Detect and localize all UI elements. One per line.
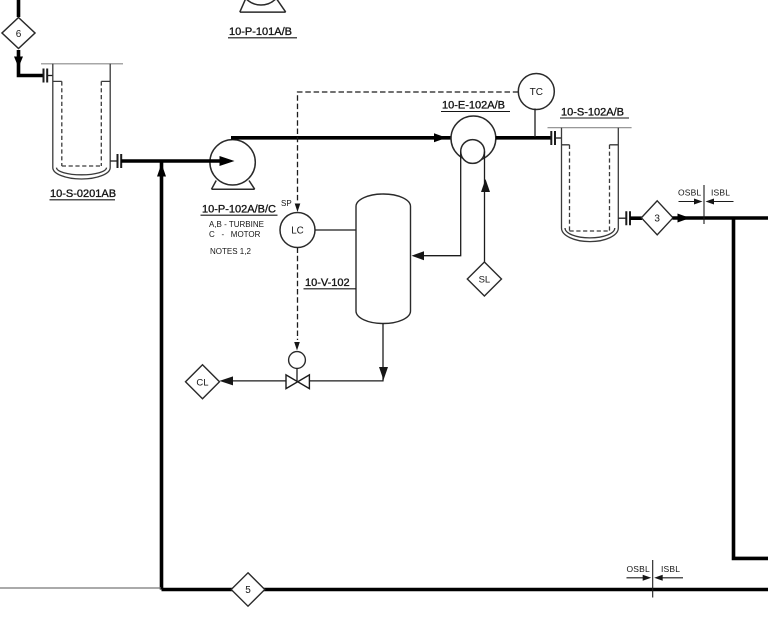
svg-text:10-S-102A/B: 10-S-102A/B xyxy=(561,107,624,119)
svg-text:NOTES 1,2: NOTES 1,2 xyxy=(210,247,251,256)
node CL diamond xyxy=(186,365,220,399)
label 10-P-102A/B/C with notes xyxy=(201,204,278,257)
flange break at 10-S-0201AB inlet nozzle xyxy=(44,69,48,83)
svg-text:OSBL: OSBL xyxy=(678,188,702,198)
signal: dashed line TC to LC setpoint corner xyxy=(298,92,519,203)
svg-text:10-E-102A/B: 10-E-102A/B xyxy=(442,100,505,112)
node 3 diamond xyxy=(641,201,673,235)
wire: bottom header (corner from riser, to right edge) xyxy=(162,588,768,592)
svg-text:TC: TC xyxy=(530,87,543,98)
svg-text:5: 5 xyxy=(245,585,251,596)
flange break at 10-S-0201AB outlet xyxy=(118,154,122,168)
wire: exchanger tube-side outlet to 10-V-102 (left arrow) xyxy=(412,152,461,261)
svg-text:6: 6 xyxy=(16,29,22,40)
svg-text:OSBL: OSBL xyxy=(627,564,651,574)
flange break at 10-S-102A/B outlet xyxy=(626,211,630,225)
control valve with diaphragm actuator xyxy=(286,352,309,389)
svg-text:LC: LC xyxy=(291,226,304,237)
svg-text:CL: CL xyxy=(196,377,208,388)
svg-text:SP: SP xyxy=(281,199,292,208)
svg-text:10-V-102: 10-V-102 xyxy=(305,277,350,289)
node 5 diamond xyxy=(231,573,265,606)
flange break at 10-S-102A/B inlet xyxy=(551,131,555,145)
wire: right riser down and out right edge xyxy=(732,218,768,558)
svg-text:10-P-101A/B: 10-P-101A/B xyxy=(229,26,292,38)
pump 10-P-102A/B/C xyxy=(210,140,255,190)
boundary marker OSBL/ISBL (bottom) xyxy=(627,560,684,598)
wire: valve outlet to CL (left arrow) xyxy=(220,376,287,385)
vessel 10-V-102 xyxy=(356,194,411,324)
instrument TC xyxy=(518,74,554,110)
label 10-S-102A/B xyxy=(560,107,629,119)
wire: thin continuation of bottom header to left edge xyxy=(0,587,161,589)
wire: exchanger outlet pipe to 10-S-102A/B xyxy=(496,136,551,140)
instrument LC xyxy=(280,213,315,248)
wire: SL line up into exchanger (up arrow) xyxy=(481,152,490,263)
wire: 10-S-102A/B outlet to diamond 3 xyxy=(618,217,626,219)
heat exchanger 10-E-102A/B xyxy=(451,116,496,163)
svg-text:10-P-102A/B/C: 10-P-102A/B/C xyxy=(202,204,276,216)
node SL diamond xyxy=(467,262,501,296)
wire: LC level tap to 10-V-102 xyxy=(315,229,356,231)
wire: valve line right segment xyxy=(310,380,384,382)
wire: 10-S-0201AB outlet to pump 10-P-102 suction (right arrow into pump) xyxy=(110,156,234,166)
vessel 10-S-0201AB xyxy=(41,64,123,179)
signal: dashed LC to control valve actuator (down arrow) xyxy=(294,248,300,351)
wire: 10-V-102 bottom outlet down (down arrow) xyxy=(379,324,388,381)
wire: diamond 3 to right edge (arrow, T junction) xyxy=(673,214,768,223)
node 6 (off-page connector diamond) xyxy=(2,18,35,49)
label 10-P-101A/B xyxy=(228,26,297,38)
label 10-S-0201AB xyxy=(50,188,117,200)
wire: riser from bottom header up to suction line (up arrow) xyxy=(157,161,166,590)
boundary marker OSBL/ISBL (top right) xyxy=(678,185,734,224)
svg-text:ISBL: ISBL xyxy=(711,188,730,198)
svg-text:10-S-0201AB: 10-S-0201AB xyxy=(50,188,116,200)
wire: pump discharge to exchanger (right arrow) xyxy=(231,133,451,142)
label 10-E-102A/B xyxy=(441,100,510,112)
vessel 10-S-102A/B xyxy=(548,128,632,242)
wire: top feed line into diamond 6 xyxy=(17,0,21,17)
svg-text:SL: SL xyxy=(479,275,491,286)
wire: diamond 6 to vessel 10-S-0201AB inlet (down arrow, corner, right) xyxy=(14,50,53,76)
svg-text:ISBL: ISBL xyxy=(661,564,680,574)
svg-text:C - MOTOR: C - MOTOR xyxy=(209,230,261,239)
pump 10-P-101A/B (partial, at top edge) xyxy=(240,0,286,12)
label 10-V-102 xyxy=(304,277,357,289)
setpoint arrow into LC xyxy=(295,204,301,213)
svg-text:3: 3 xyxy=(654,214,660,225)
wire: TC stem to pipe xyxy=(534,109,536,138)
svg-text:A,B - TURBINE: A,B - TURBINE xyxy=(209,220,264,229)
